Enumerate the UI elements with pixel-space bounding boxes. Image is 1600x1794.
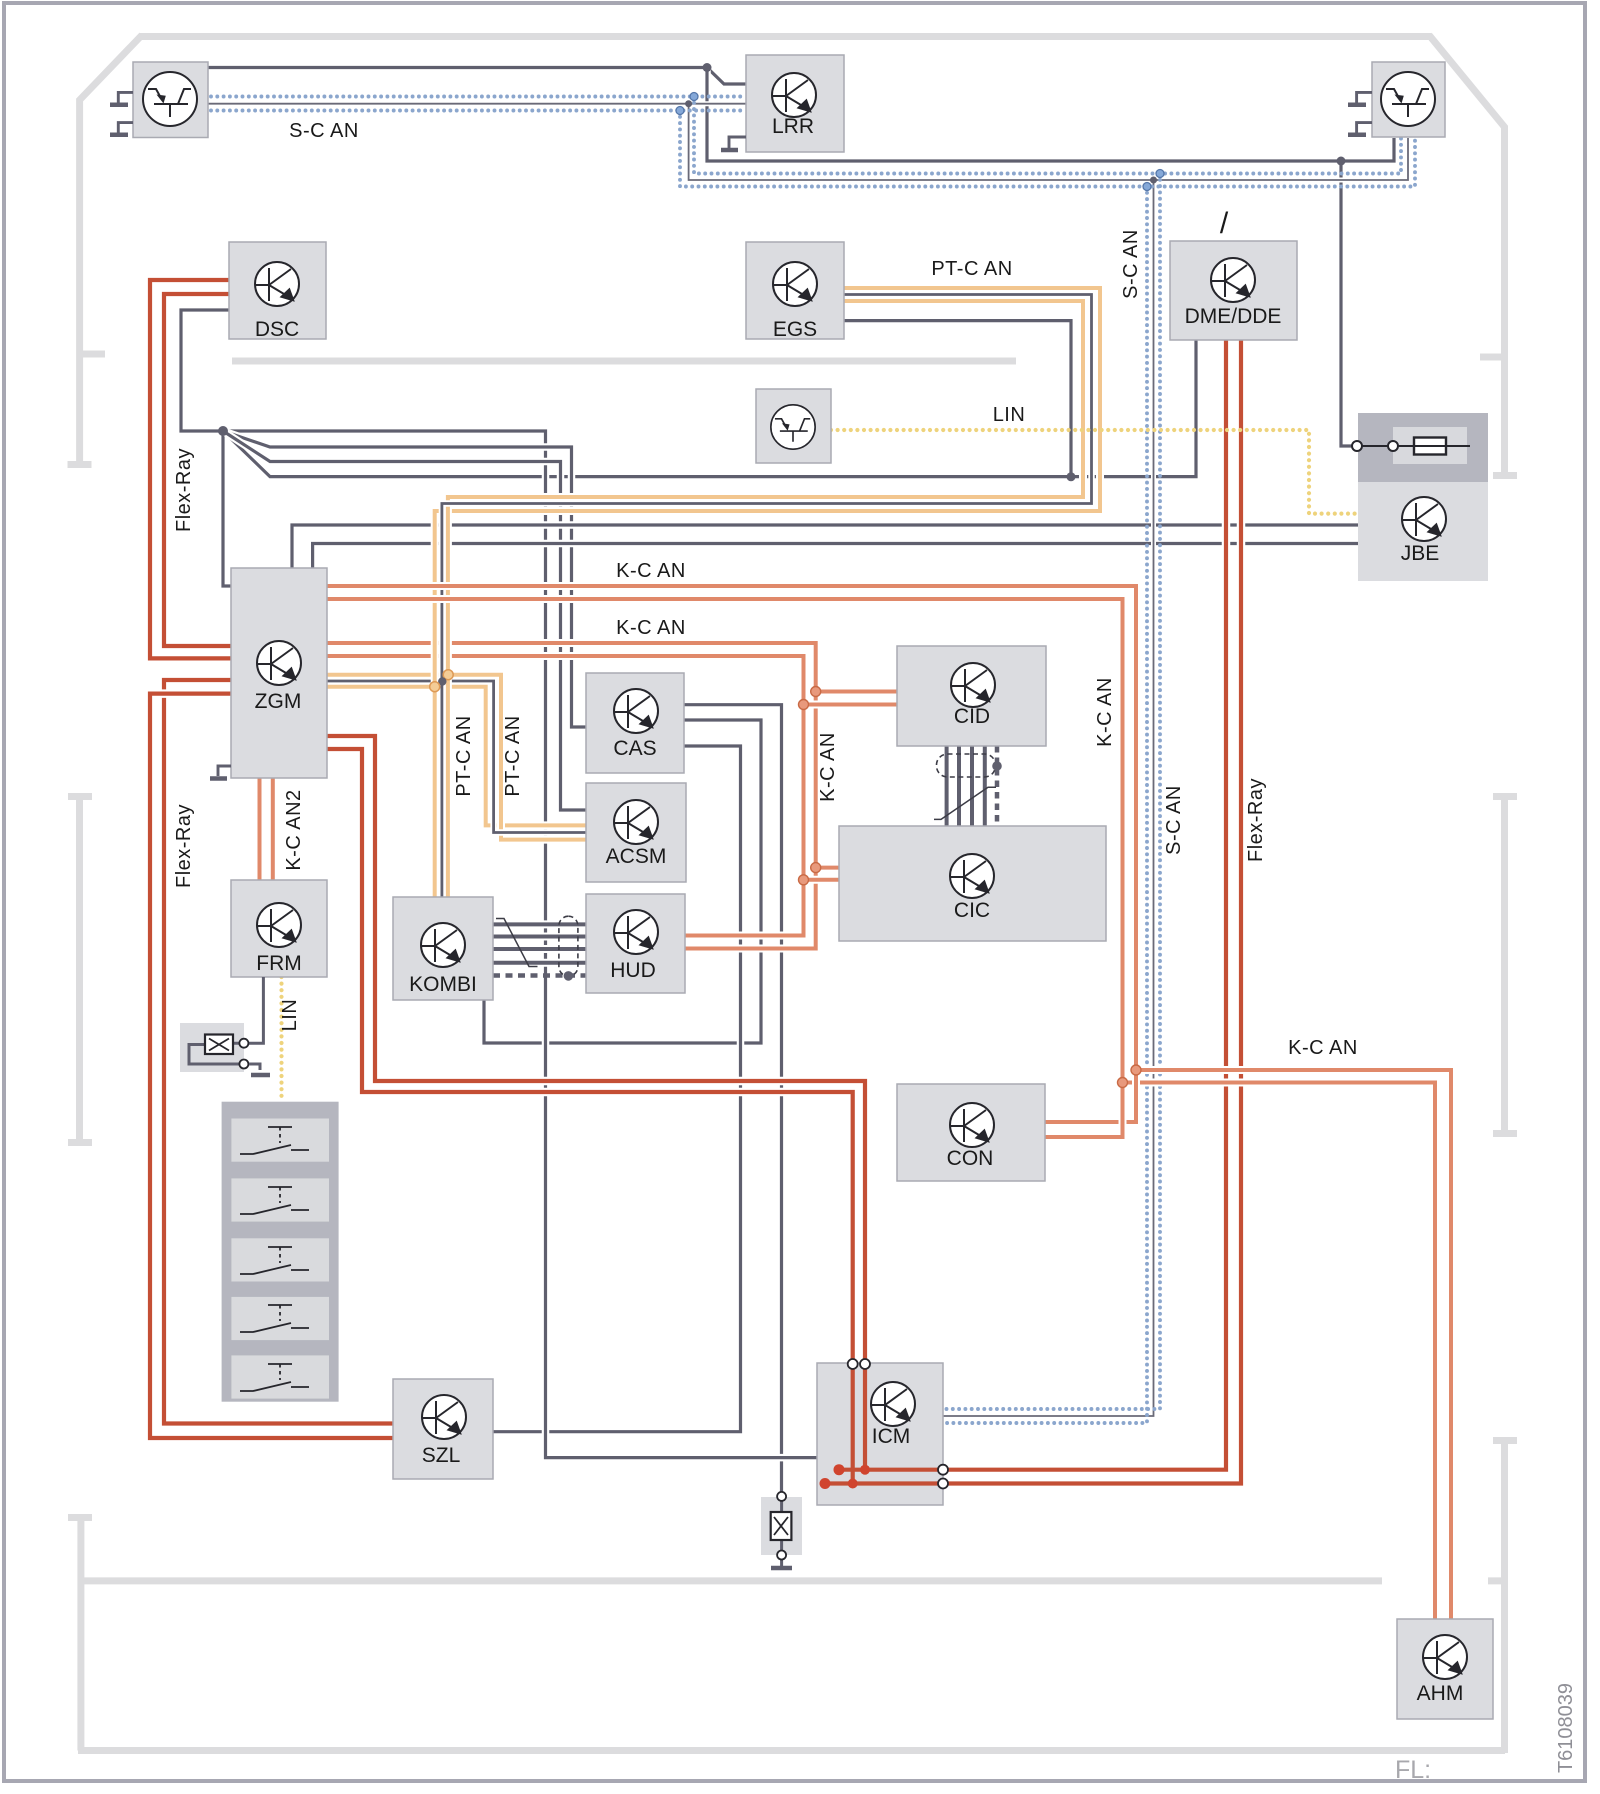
icon CON	[950, 1103, 994, 1147]
svg-text:K-C AN: K-C AN	[817, 732, 839, 802]
icon CID	[951, 663, 995, 707]
car outline bottom-left pillar and floor	[68, 1518, 1505, 1751]
wire K-CAN pair2 upper ZGM to HUD	[327, 643, 816, 949]
ground bracket ZGM	[218, 766, 231, 776]
node EGS gray junction	[1067, 472, 1076, 481]
node S-CAN blue junction row1	[690, 93, 698, 101]
terminal ICM top right	[860, 1359, 870, 1369]
wire Flex-Ray inside ICM vertical right	[863, 1363, 867, 1470]
wire: ZGM top to JBE lower gray	[313, 544, 1359, 570]
car outline bottom-right pillar	[1493, 1441, 1517, 1754]
svg-text:ZGM: ZGM	[255, 690, 302, 713]
wire K-CAN stub to CIC lower	[804, 876, 841, 884]
svg-text:K-C AN: K-C AN	[616, 617, 686, 639]
node DSC fan junction	[218, 426, 228, 436]
switch cell 3	[231, 1238, 329, 1281]
svg-text:CIC: CIC	[954, 899, 990, 922]
wire: fan line 4 DSC junction to DME/DDE bottom	[223, 340, 1196, 477]
ICM box	[817, 1363, 943, 1505]
icon JBE	[1402, 497, 1446, 541]
wire Flex-Ray ZGM to ICM upper	[327, 736, 865, 1470]
lamp module box near FRM	[180, 1023, 244, 1072]
wire LIN FRM to switch bank	[279, 977, 283, 1101]
wire K-CAN stub to CID upper	[816, 688, 898, 696]
JBE main box	[1358, 482, 1488, 581]
bundle slash CID-CIC	[934, 787, 996, 819]
lamp symbol below ICM with ground	[771, 1492, 792, 1568]
wire PT-CAN branch to ACSM outer	[327, 675, 586, 840]
wire S-CAN middle line drop and row to right sensor	[689, 104, 1408, 180]
node S-CAN blue junction row2	[676, 107, 684, 115]
car outline top-right diagonal and right front pillar	[1429, 35, 1517, 476]
node K-CAN CID junction upper	[811, 687, 821, 697]
wire PT-CAN EGS U-loop outer to KOMBI	[435, 288, 1100, 897]
switch symbol 1	[240, 1127, 309, 1154]
car outline windshield line	[232, 358, 1016, 365]
wire: KOMBI to HUD line 2	[493, 933, 586, 941]
wire Flex-Ray inside ICM horizontal upper	[839, 1468, 943, 1472]
car outline top edge	[140, 33, 1431, 40]
switch symbol 5	[240, 1364, 309, 1391]
svg-text:KOMBI: KOMBI	[409, 973, 477, 996]
node K-CAN CON junction lower	[1118, 1078, 1128, 1088]
wire: CID to CIC line 4	[981, 746, 989, 826]
svg-text:AHM: AHM	[1417, 1682, 1464, 1705]
wire: EGS to fan line 4 junction	[844, 321, 1071, 475]
icon DSC	[255, 262, 299, 306]
wire PT-CAN branch to ACSM inner	[327, 687, 586, 826]
icon CAS	[614, 689, 658, 733]
icon radar sensor left	[143, 72, 197, 126]
car outline left middle door bar	[68, 797, 92, 1143]
node K-CAN CON junction upper	[1131, 1065, 1141, 1075]
icon ICM	[871, 1382, 915, 1426]
node PT-CAN junction outer	[443, 670, 453, 680]
svg-text:EGS: EGS	[773, 318, 817, 341]
wire K-CAN stub to CID lower	[804, 701, 899, 709]
node K-CAN CIC junction upper	[811, 863, 821, 873]
svg-text:JBE: JBE	[1401, 542, 1440, 565]
CIC box	[839, 826, 1106, 941]
car outline top-left diagonal and left front pillar	[68, 35, 143, 465]
wire K-CAN CON stub upper	[1045, 1070, 1136, 1122]
svg-text:PT-C AN: PT-C AN	[931, 258, 1012, 280]
switch symbol 2	[240, 1187, 309, 1214]
wire: KOMBI to HUD line 1	[493, 920, 586, 928]
node ICM red junction upper	[860, 1465, 870, 1475]
terminal ICM right upper	[938, 1465, 948, 1475]
wire S-CAN middle line long drop to ICM	[943, 180, 1154, 1416]
wire K-CAN2 ZGM to FRM line 2	[269, 778, 277, 880]
svg-text:S-C AN: S-C AN	[1120, 229, 1142, 299]
icon radar sensor right	[1381, 72, 1435, 126]
radar sensor right box	[1372, 62, 1445, 137]
node K-CAN CID junction lower	[799, 700, 809, 710]
wire S-CAN dotted branch upper	[694, 97, 1401, 174]
icon EGS	[773, 262, 817, 306]
wire K-CAN2 ZGM to FRM line 1	[256, 778, 264, 880]
icon LRR	[772, 73, 816, 117]
node S-CAN blue junction drop lower	[1143, 183, 1151, 191]
wire Flex-Ray ZGM to SZL inner	[164, 680, 393, 1424]
steering column sensor box	[756, 389, 831, 463]
wire: KOMBI to HUD line 4	[493, 959, 586, 967]
svg-text:DME/DDE: DME/DDE	[1185, 305, 1282, 328]
wire: KOMBI to HUD line 3	[493, 945, 586, 953]
svg-text:T6108039: T6108039	[1555, 1683, 1577, 1773]
lamp symbol near FRM	[189, 977, 270, 1075]
svg-text:CAS: CAS	[613, 737, 656, 760]
icon CIC	[950, 854, 994, 898]
svg-text:K-C AN: K-C AN	[1094, 677, 1116, 747]
node PT-CAN junction gray	[438, 677, 446, 685]
svg-text:PT-C AN: PT-C AN	[502, 715, 524, 796]
wire S-CAN middle line left sensor to LRR	[208, 101, 746, 106]
ground bracket LRR	[729, 137, 746, 148]
node K-CAN CIC junction lower	[799, 875, 809, 885]
ground bracket right sensor 1	[1357, 92, 1372, 103]
svg-text:LIN: LIN	[279, 999, 301, 1032]
wire: CID to CIC line 3	[968, 746, 976, 826]
wire Flex-Ray inside ICM vertical left	[851, 1363, 855, 1484]
wire: ZGM top to JBE upper gray	[292, 525, 1359, 569]
switch bank container	[222, 1102, 339, 1402]
radar sensor left box	[133, 62, 208, 138]
svg-text:Flex-Ray: Flex-Ray	[173, 804, 195, 888]
svg-text:Flex-Ray: Flex-Ray	[1245, 778, 1267, 862]
wire S-CAN dotted long drop right	[943, 187, 1147, 1424]
wire Flex-Ray inside ICM horizontal lower	[825, 1481, 943, 1485]
node S-CAN middle junction left	[685, 100, 692, 107]
node dashed wire dot KOMBI-HUD	[564, 971, 574, 981]
wire Flex-Ray ZGM to SZL outer	[150, 694, 393, 1438]
CON box	[897, 1084, 1045, 1181]
terminal ICM right lower	[938, 1479, 948, 1489]
wire: KOMBI to HUD dashed line	[493, 973, 586, 978]
wire PT-CAN EGS U-loop inner to KOMBI	[448, 301, 1083, 897]
wire: CID to CIC line 1	[943, 746, 951, 826]
wire S-CAN dotted branch lower	[680, 111, 1415, 187]
node S-CAN middle junction right	[1150, 177, 1157, 184]
switch cell 5	[231, 1355, 329, 1398]
wire PT-CAN branch to ACSM gray middle	[327, 681, 586, 833]
AHM box	[1397, 1619, 1493, 1719]
wire: top bus line to right sensor	[707, 68, 1394, 162]
svg-text:FRM: FRM	[256, 952, 302, 975]
wire PT-CAN EGS gray middle to KOMBI	[442, 295, 1092, 898]
JBE fuse inner panel	[1393, 427, 1467, 464]
icon FRM	[257, 903, 301, 947]
node ICM red stub end lower	[820, 1478, 831, 1489]
KOMBI box	[393, 897, 493, 1000]
lamp module box below ICM	[761, 1497, 802, 1555]
ground bracket right sensor 2	[1357, 123, 1372, 134]
node S-CAN blue junction drop upper	[1156, 170, 1164, 178]
wire: left sensor to LRR top link	[208, 68, 746, 85]
svg-text:S-C AN: S-C AN	[1163, 785, 1185, 855]
icon ZGM	[257, 641, 301, 685]
icon KOMBI	[421, 923, 465, 967]
wire K-CAN pair1 lower ZGM to AHM	[327, 599, 1435, 1619]
JBE fuse section box	[1358, 413, 1488, 482]
wire S-CAN dotted long drop left	[943, 174, 1160, 1410]
wire K-CAN pair1 upper ZGM to AHM	[327, 586, 1451, 1619]
wire S-CAN dotted row 2	[211, 109, 746, 113]
icon HUD	[614, 910, 658, 954]
svg-text:DSC: DSC	[255, 318, 299, 341]
svg-text:Flex-Ray: Flex-Ray	[173, 448, 195, 532]
wire K-CAN CON stub lower	[1045, 1083, 1123, 1138]
wire Flex-Ray ZGM to ICM lower	[327, 749, 853, 1484]
node top bus junction	[703, 63, 712, 72]
SZL box	[393, 1379, 493, 1479]
connector dashed stadium KOMBI-HUD	[559, 916, 578, 976]
switch symbol 3	[240, 1247, 309, 1274]
wire: DSC feed to fan junction	[181, 310, 231, 586]
switch symbol 4	[240, 1305, 309, 1332]
DME/DDE box	[1170, 241, 1297, 340]
op unit LRR box	[746, 55, 844, 152]
svg-text:LIN: LIN	[993, 404, 1026, 426]
svg-text:ICM: ICM	[872, 1425, 911, 1448]
svg-text:K-C AN2: K-C AN2	[283, 789, 305, 870]
wire: fan line 1 long vertical to ICM left	[223, 431, 817, 1458]
wire K-CAN pair2 lower ZGM to HUD	[327, 656, 804, 936]
svg-text:CON: CON	[947, 1147, 994, 1170]
icon steering column sensor	[771, 405, 815, 449]
ZGM box	[231, 568, 327, 778]
node JBE drop junction	[1337, 157, 1346, 166]
fuse symbol in JBE	[1352, 438, 1470, 455]
icon ACSM	[614, 800, 658, 844]
ground bracket left sensor 1	[118, 92, 133, 103]
EGS box	[746, 242, 844, 339]
wire Flex-Ray DSC lower to ZGM	[164, 294, 231, 646]
car outline rear shelf line	[81, 1577, 1504, 1584]
switch cell 1	[231, 1119, 329, 1162]
connector dashed stadium CID-CIC	[937, 754, 996, 777]
CID box	[897, 646, 1046, 746]
wire Flex-Ray ICM to DME/DDE outer	[825, 340, 1241, 1484]
svg-text:/: /	[1220, 207, 1229, 240]
terminal ICM top left	[848, 1359, 858, 1369]
svg-text:K-C AN: K-C AN	[616, 560, 686, 582]
wire: fan line 3 to ACSM left	[223, 431, 586, 810]
node ICM red junction lower	[848, 1479, 858, 1489]
node ICM red stub end upper	[834, 1464, 845, 1475]
wire: CID to CIC line 2	[955, 746, 963, 826]
wire Flex-Ray ICM to DME/DDE inner	[839, 340, 1226, 1470]
wire: drop to JBE fuse	[1341, 161, 1352, 446]
switch cell 2	[231, 1178, 329, 1221]
switch cell 4	[231, 1297, 329, 1340]
wire Flex-Ray DSC upper to ZGM	[150, 280, 231, 658]
icon SZL	[422, 1395, 466, 1439]
car outline right middle door bar	[1493, 797, 1517, 1134]
wire LIN sensor to JBE	[831, 430, 1358, 514]
ground bracket left sensor 2	[118, 123, 133, 134]
svg-text:ACSM: ACSM	[606, 845, 667, 868]
FRM box	[231, 880, 327, 977]
DSC box	[229, 242, 326, 339]
svg-text:PT-C AN: PT-C AN	[453, 715, 475, 796]
wire S-CAN dotted row 1	[211, 95, 746, 99]
svg-text:S-C AN: S-C AN	[289, 120, 359, 142]
svg-text:LRR: LRR	[772, 115, 814, 138]
svg-text:SZL: SZL	[422, 1444, 461, 1467]
icon DME/DDE	[1211, 258, 1255, 302]
bundle slash KOMBI-HUD	[496, 919, 538, 967]
wire: KOMBI to CAS via x=761	[484, 720, 761, 1043]
svg-text:CID: CID	[954, 705, 990, 728]
CAS box	[586, 673, 684, 773]
wire: CAS pin to lamp below ICM via x=781.5	[684, 705, 782, 1492]
icon AHM	[1423, 1635, 1467, 1679]
wire: CID to CIC dashed line	[995, 746, 1000, 826]
svg-text:K-C AN: K-C AN	[1288, 1037, 1358, 1059]
node PT-CAN junction inner	[430, 682, 440, 692]
svg-text:HUD: HUD	[610, 959, 656, 982]
node dashed wire dot CID-CIC	[992, 761, 1002, 771]
wire: CAS to SZL via x=740.5	[493, 746, 741, 1432]
wire: fan line 2 to CAS left	[223, 431, 586, 727]
HUD box	[586, 894, 685, 993]
svg-text:FL:: FL:	[1395, 1756, 1431, 1784]
wire K-CAN stub to CIC upper	[816, 864, 840, 872]
ACSM box	[586, 783, 686, 882]
